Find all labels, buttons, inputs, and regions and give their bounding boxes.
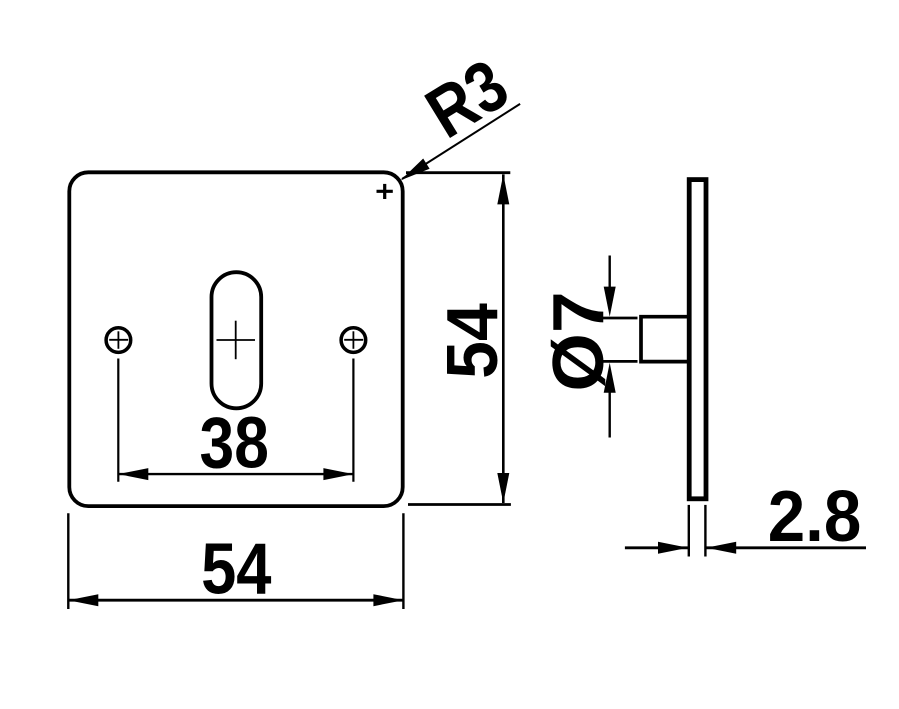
svg-text:54: 54: [432, 303, 512, 379]
svg-text:2.8: 2.8: [768, 476, 862, 557]
svg-text:38: 38: [200, 403, 269, 483]
svg-text:54: 54: [201, 530, 272, 610]
svg-text:Ø7: Ø7: [537, 291, 618, 391]
